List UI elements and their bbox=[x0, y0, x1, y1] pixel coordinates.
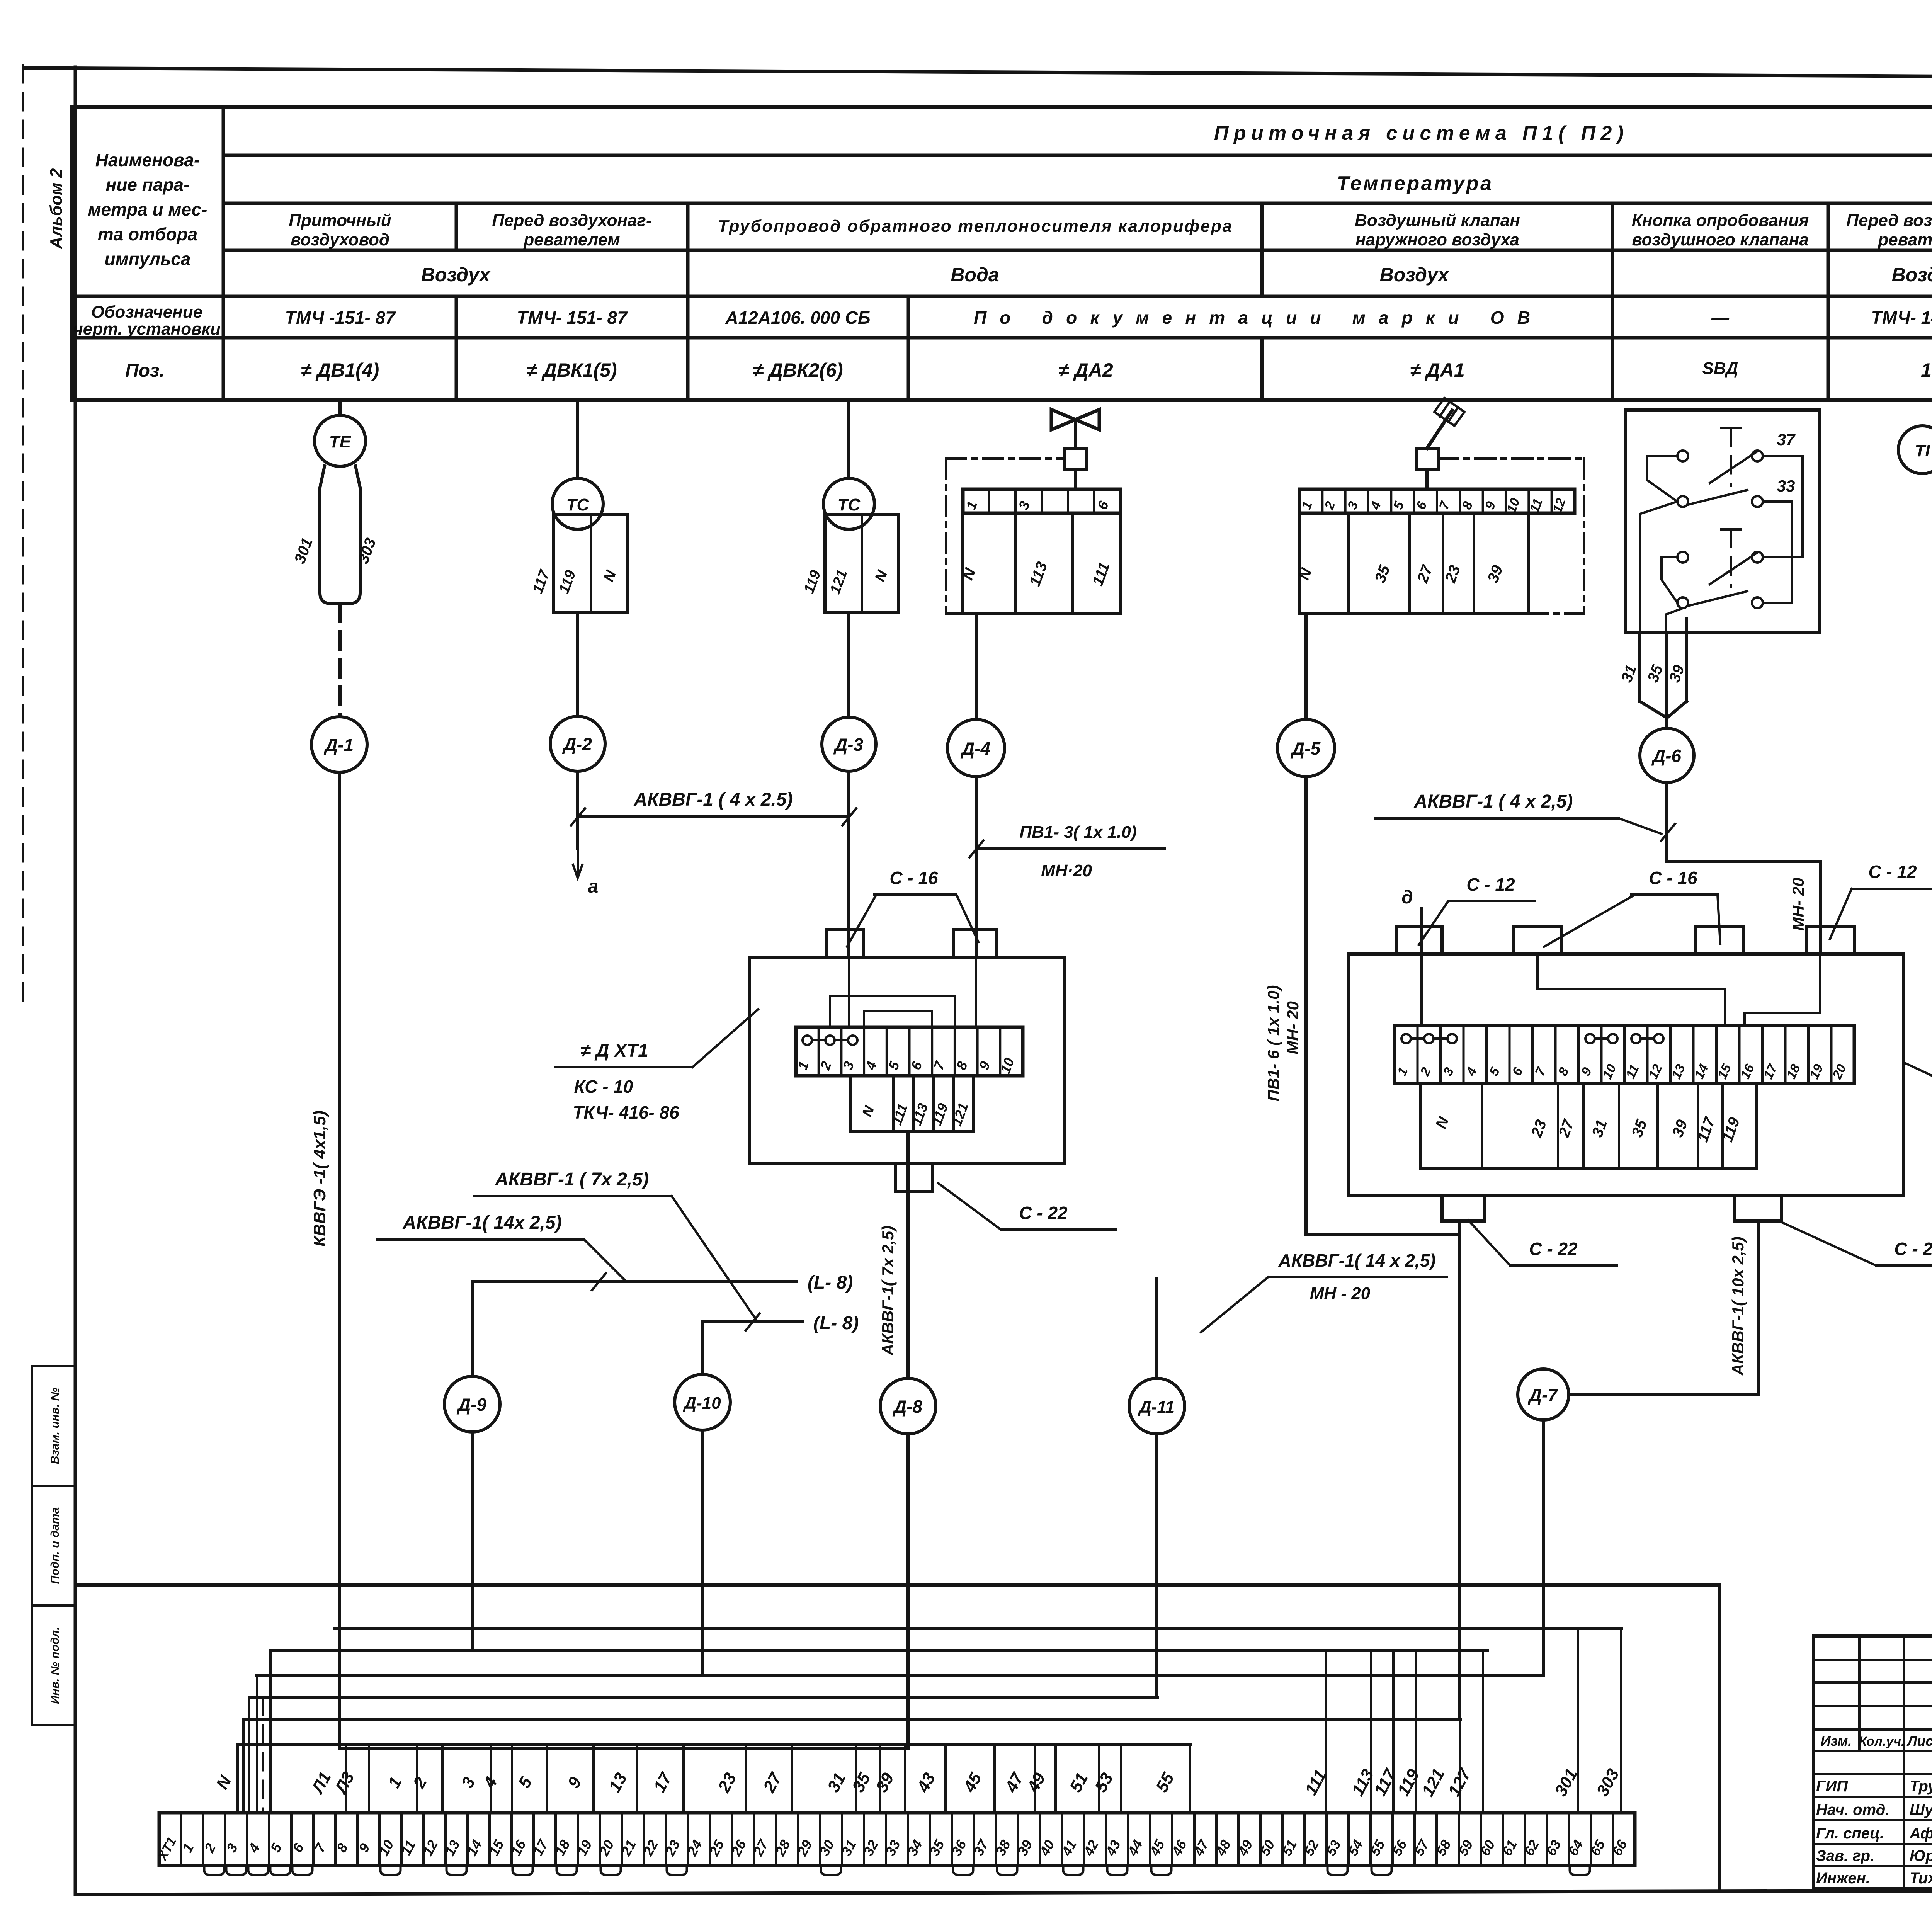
svg-text:Воздух: Воздух bbox=[1380, 264, 1450, 286]
wire D-10 down bbox=[701, 1430, 704, 1675]
wire XT2 right stub to D-7 bbox=[1757, 1221, 1760, 1395]
wire XT2 left stub down bbox=[1458, 1221, 1461, 1234]
svg-text:АКВВГ-1( 14х 2,5): АКВВГ-1( 14х 2,5) bbox=[402, 1213, 561, 1233]
svg-text:113: 113 bbox=[1348, 1766, 1378, 1799]
sheet border top line bbox=[24, 68, 1932, 80]
circle D-5 bbox=[1277, 719, 1335, 777]
svg-text:Обозначение: Обозначение bbox=[91, 303, 202, 321]
svg-text:ТС: ТС bbox=[838, 495, 861, 514]
XT1 jumper circles 1-2-3 bbox=[803, 1036, 812, 1045]
dashed screen drop bbox=[262, 1697, 264, 1813]
svg-text:С - 16: С - 16 bbox=[1649, 868, 1697, 888]
DA1 dash-dot enclosure bbox=[1438, 457, 1584, 460]
svg-text:С - 22: С - 22 bbox=[1894, 1239, 1932, 1259]
svg-text:53: 53 bbox=[1091, 1770, 1117, 1795]
svg-text:301: 301 bbox=[291, 536, 316, 566]
svg-text:≠ Д ХТ1: ≠ Д ХТ1 bbox=[580, 1041, 648, 1061]
XT1 lower terminal box bbox=[850, 1076, 974, 1132]
svg-text:39: 39 bbox=[1669, 1117, 1691, 1139]
XT2 lower terminal box bbox=[1421, 1083, 1756, 1168]
terminal box XT1 bbox=[749, 957, 1064, 1164]
svg-text:39: 39 bbox=[1666, 662, 1688, 685]
svg-text:35: 35 bbox=[1629, 1117, 1651, 1139]
TC1 terminal box bbox=[554, 515, 628, 613]
bus line E bbox=[249, 1696, 1157, 1699]
circle D-10 bbox=[675, 1374, 730, 1430]
svg-text:31: 31 bbox=[1589, 1117, 1611, 1139]
XT1 top stub right bbox=[954, 930, 997, 957]
svg-text:SВД: SВД bbox=[1702, 359, 1738, 378]
svg-text:С - 12: С - 12 bbox=[1868, 862, 1917, 882]
DA1 lower terminal box bbox=[1299, 513, 1528, 614]
XT1 inner wiring bbox=[848, 957, 850, 1027]
svg-text:Кол.уч.: Кол.уч. bbox=[1859, 1734, 1905, 1749]
svg-text:воздушного клапана: воздушного клапана bbox=[1632, 230, 1809, 249]
wire actuator to strip bbox=[1425, 470, 1429, 489]
svg-text:31: 31 bbox=[1618, 663, 1640, 685]
relay wiring left upper bbox=[1647, 456, 1677, 502]
svg-text:АКВВГ-1 ( 4 х 2.5): АКВВГ-1 ( 4 х 2.5) bbox=[633, 789, 793, 810]
valve DA2 bbox=[1051, 410, 1099, 430]
bus line G bbox=[238, 1743, 1190, 1746]
svg-text:Воздух: Воздух bbox=[421, 264, 491, 286]
wire DA1 to D-5 bbox=[1304, 614, 1308, 719]
svg-text:Воздушный клапан: Воздушный клапан bbox=[1355, 211, 1520, 230]
bus line H bbox=[339, 1747, 908, 1750]
wire TC2 to D-3 bbox=[847, 613, 850, 717]
svg-text:3: 3 bbox=[1345, 500, 1361, 512]
wire D-11 up bbox=[1155, 1279, 1158, 1378]
TC2 terminal box bbox=[825, 515, 899, 613]
svg-text:Тиханова: Тиханова bbox=[1910, 1870, 1932, 1887]
svg-text:19: 19 bbox=[1807, 1062, 1826, 1081]
svg-text:наружного воздуха: наружного воздуха bbox=[1355, 230, 1519, 249]
XT1 top stub left bbox=[826, 930, 864, 957]
circle D-9 bbox=[444, 1376, 500, 1432]
svg-text:Инжен.: Инжен. bbox=[1816, 1870, 1870, 1887]
valve actuator box bbox=[1064, 448, 1087, 470]
svg-text:27: 27 bbox=[760, 1769, 786, 1796]
contact 37 bbox=[1677, 451, 1688, 461]
svg-text:15: 15 bbox=[1715, 1061, 1735, 1081]
parameter table outer bbox=[72, 105, 1932, 109]
svg-text:1: 1 bbox=[1299, 500, 1315, 512]
svg-text:АКВВГ-1 ( 4 х 2,5): АКВВГ-1 ( 4 х 2,5) bbox=[1413, 791, 1573, 812]
svg-text:ревателем: ревателем bbox=[523, 230, 620, 249]
DA2 dash-dot enclosure bbox=[946, 457, 1064, 460]
contact 33 bbox=[1677, 496, 1688, 507]
svg-text:6: 6 bbox=[1413, 499, 1430, 512]
svg-text:3: 3 bbox=[1015, 499, 1033, 512]
svg-text:5: 5 bbox=[1391, 499, 1407, 512]
svg-text:N: N bbox=[600, 568, 619, 584]
svg-text:13: 13 bbox=[605, 1770, 631, 1795]
wire DA2 to D-4 bbox=[975, 614, 978, 719]
svg-text:КС - 10: КС - 10 bbox=[574, 1077, 633, 1097]
svg-text:Изм.: Изм. bbox=[1821, 1733, 1852, 1749]
svg-text:2: 2 bbox=[1322, 500, 1338, 512]
svg-text:111: 111 bbox=[889, 1102, 911, 1127]
svg-text:≠ ДА1: ≠ ДА1 bbox=[1410, 359, 1464, 381]
svg-text:6: 6 bbox=[1509, 1065, 1526, 1078]
cable clamp hooks under strip bbox=[204, 1866, 224, 1875]
svg-text:23: 23 bbox=[1442, 563, 1464, 585]
svg-text:(L- 8): (L- 8) bbox=[808, 1272, 853, 1293]
svg-text:≠ ДВК1(5): ≠ ДВК1(5) bbox=[527, 359, 617, 381]
XT2 top stubs bbox=[1396, 927, 1442, 954]
svg-text:N: N bbox=[859, 1104, 878, 1119]
svg-text:ПВ1- 3( 1х 1.0): ПВ1- 3( 1х 1.0) bbox=[1019, 823, 1136, 842]
circle D-6 bbox=[1640, 728, 1694, 782]
XT2 bottom stubs bbox=[1442, 1196, 1485, 1221]
svg-text:Поз.: Поз. bbox=[125, 361, 165, 381]
svg-text:117: 117 bbox=[530, 568, 553, 596]
XT2 terminal strip 20 cells bbox=[1395, 1026, 1854, 1083]
svg-text:Трушин: Трушин bbox=[1910, 1778, 1932, 1795]
svg-text:119: 119 bbox=[929, 1101, 951, 1128]
svg-text:N: N bbox=[872, 568, 891, 584]
svg-text:≠ ДВК2(6): ≠ ДВК2(6) bbox=[753, 359, 843, 381]
wire D-9 down bbox=[471, 1432, 474, 1651]
circle D-3 bbox=[822, 717, 876, 771]
bus line F bbox=[243, 1718, 1460, 1721]
cable mark PV1-3 bbox=[976, 847, 1165, 850]
svg-text:Нач. отд.: Нач. отд. bbox=[1816, 1801, 1889, 1818]
wire D-3 down to XT1 bbox=[847, 771, 850, 957]
svg-text:Л1: Л1 bbox=[308, 1769, 335, 1798]
svg-text:18: 18 bbox=[1784, 1062, 1803, 1081]
svg-text:Подп. и дата: Подп. и дата bbox=[49, 1507, 61, 1584]
svg-text:7: 7 bbox=[1532, 1065, 1549, 1078]
svg-text:АКВВГ-1( 7х 2,5): АКВВГ-1( 7х 2,5) bbox=[879, 1226, 897, 1356]
left bus drops to strip bbox=[236, 1744, 239, 1813]
svg-text:импульса: импульса bbox=[105, 249, 191, 269]
XT2 inner wiring bbox=[1420, 954, 1423, 1026]
bus line D bbox=[257, 1674, 1543, 1677]
svg-text:10: 10 bbox=[1600, 1062, 1619, 1081]
table vertical lines bbox=[222, 107, 225, 400]
svg-text:4: 4 bbox=[1463, 1065, 1480, 1078]
svg-text:23: 23 bbox=[714, 1770, 740, 1796]
svg-text:45: 45 bbox=[960, 1770, 986, 1796]
svg-text:Д-4: Д-4 bbox=[960, 738, 990, 759]
wire from table to TC2 bbox=[847, 400, 850, 478]
svg-text:АКВВГ-1 ( 7х 2,5): АКВВГ-1 ( 7х 2,5) bbox=[495, 1169, 649, 1190]
wire D-6 to XT2 bbox=[1665, 782, 1668, 862]
svg-text:1: 1 bbox=[1395, 1065, 1411, 1078]
svg-text:Альбом 2: Альбом 2 bbox=[47, 168, 66, 249]
svg-text:МН·20: МН·20 bbox=[1041, 861, 1092, 880]
wire D-4 down to XT1 bbox=[975, 777, 978, 957]
circle D-7 bbox=[1518, 1369, 1569, 1420]
DA2 terminal strip 6 cells bbox=[963, 489, 1121, 513]
svg-text:N: N bbox=[213, 1772, 235, 1793]
svg-text:14: 14 bbox=[1692, 1062, 1711, 1081]
svg-text:С - 22: С - 22 bbox=[1529, 1239, 1578, 1259]
svg-text:ТКЧ- 416- 86: ТКЧ- 416- 86 bbox=[573, 1102, 679, 1122]
svg-text:Наименова-: Наименова- bbox=[95, 150, 200, 170]
svg-text:121: 121 bbox=[827, 568, 850, 596]
continuation arrow a bbox=[573, 849, 582, 878]
DA1 terminal strip 12 cells bbox=[1299, 489, 1575, 513]
svg-text:6: 6 bbox=[1094, 498, 1112, 512]
svg-text:39: 39 bbox=[872, 1770, 898, 1796]
svg-text:КВВГЭ -1( 4х1,5): КВВГЭ -1( 4х1,5) bbox=[310, 1111, 329, 1247]
bus line A bbox=[75, 1583, 1719, 1587]
svg-text:13: 13 bbox=[1669, 1062, 1688, 1081]
wire actuator to strip bbox=[1074, 470, 1077, 489]
svg-text:Д-2: Д-2 bbox=[562, 734, 592, 754]
svg-text:8: 8 bbox=[1555, 1065, 1571, 1078]
svg-text:≠ ДА2: ≠ ДА2 bbox=[1058, 359, 1113, 381]
svg-text:Вода: Вода bbox=[951, 264, 999, 286]
wire D-9 up and L-8 bbox=[471, 1281, 474, 1376]
circle D-2 bbox=[550, 716, 605, 771]
svg-text:—: — bbox=[1711, 308, 1730, 328]
title block outer bbox=[1813, 1636, 1932, 1889]
svg-text:4: 4 bbox=[1367, 500, 1384, 512]
svg-text:303: 303 bbox=[1593, 1765, 1623, 1799]
frame bottom line bbox=[75, 1889, 1932, 1895]
svg-text:Л3: Л3 bbox=[331, 1769, 358, 1798]
svg-text:ТС: ТС bbox=[566, 495, 590, 514]
svg-text:17: 17 bbox=[1761, 1061, 1781, 1081]
svg-text:Д-7: Д-7 bbox=[1527, 1385, 1559, 1405]
XT1 terminal strip 10 cells bbox=[796, 1027, 1023, 1076]
svg-text:49: 49 bbox=[1024, 1770, 1049, 1796]
svg-text:Взам. инв. №: Взам. инв. № bbox=[49, 1388, 61, 1464]
svg-text:черт. установки: черт. установки bbox=[73, 320, 221, 338]
svg-text:Инв. № подл.: Инв. № подл. bbox=[49, 1627, 61, 1704]
svg-text:121: 121 bbox=[1418, 1765, 1448, 1799]
svg-text:Д-1: Д-1 bbox=[323, 735, 354, 755]
svg-text:5: 5 bbox=[1486, 1065, 1503, 1078]
svg-text:Гл. спец.: Гл. спец. bbox=[1816, 1825, 1884, 1842]
svg-text:119: 119 bbox=[1394, 1766, 1423, 1799]
svg-text:1: 1 bbox=[384, 1774, 406, 1791]
svg-text:ние пара-: ние пара- bbox=[106, 175, 190, 195]
svg-text:АКВВГ-1( 14 х 2,5): АКВВГ-1( 14 х 2,5) bbox=[1278, 1250, 1436, 1270]
circle D-8 bbox=[880, 1378, 936, 1434]
svg-text:37: 37 bbox=[1777, 430, 1796, 449]
sensor TC2 bbox=[823, 478, 874, 529]
svg-text:ПВ1- 6 ( 1х 1.0): ПВ1- 6 ( 1х 1.0) bbox=[1264, 985, 1282, 1102]
wire XT1 to D-8 bbox=[906, 1132, 910, 1378]
contact pair lower bbox=[1677, 552, 1688, 563]
sensor TC1 bbox=[552, 478, 603, 529]
wire from table to TE bbox=[338, 400, 342, 415]
long terminal strip XT1 bottom bbox=[159, 1813, 1635, 1866]
svg-text:МН- 20: МН- 20 bbox=[1789, 878, 1807, 931]
svg-text:N: N bbox=[1432, 1114, 1452, 1131]
svg-text:АКВВГ-1( 10х 2,5): АКВВГ-1( 10х 2,5) bbox=[1729, 1236, 1747, 1376]
svg-text:12: 12 bbox=[1646, 1062, 1665, 1081]
svg-text:Д-10: Д-10 bbox=[682, 1394, 721, 1413]
svg-text:МН- 20: МН- 20 bbox=[1284, 1001, 1302, 1054]
svg-text:Кнопка опробования: Кнопка опробования bbox=[1632, 211, 1809, 230]
svg-text:9: 9 bbox=[564, 1774, 585, 1791]
svg-text:16: 16 bbox=[1738, 1061, 1757, 1081]
circle D-4 bbox=[947, 719, 1005, 777]
svg-text:33: 33 bbox=[1777, 477, 1795, 495]
sheet border left edge mark bbox=[22, 65, 24, 1005]
svg-text:121: 121 bbox=[949, 1100, 971, 1128]
circle D-11 bbox=[1129, 1378, 1185, 1434]
stamp box Vzam inv bbox=[32, 1366, 75, 1486]
DA2 lower terminal box bbox=[963, 513, 1121, 614]
cable mark line AKVVG-1 4x2.5 bbox=[578, 815, 849, 818]
relay box SBD bbox=[1625, 410, 1820, 633]
svg-text:117: 117 bbox=[1371, 1765, 1400, 1799]
svg-text:Д-8: Д-8 bbox=[892, 1396, 923, 1417]
svg-text:113: 113 bbox=[1026, 560, 1051, 588]
wire TC1 to D-2 bbox=[576, 613, 579, 717]
svg-text:111: 111 bbox=[1089, 560, 1113, 588]
table horizontal lines bbox=[223, 154, 1932, 157]
DA1 sensor flag bbox=[1427, 410, 1452, 448]
svg-text:Д-3: Д-3 bbox=[833, 735, 864, 755]
svg-text:По документации марки ОВ: По документации марки ОВ bbox=[974, 308, 1530, 328]
svg-text:17: 17 bbox=[650, 1769, 676, 1795]
svg-text:39: 39 bbox=[1485, 563, 1507, 585]
svg-text:д: д bbox=[1401, 887, 1413, 908]
svg-text:Приточный: Приточный bbox=[289, 211, 391, 230]
frame left vertical bbox=[74, 67, 77, 1895]
XT1 bottom stub bbox=[895, 1164, 933, 1192]
sensor TE bbox=[315, 415, 366, 466]
svg-text:Трубопровод обратного теплонос: Трубопровод обратного теплоносителя кало… bbox=[718, 217, 1232, 236]
wire D-5 jog to XT2 stub bbox=[1306, 1233, 1460, 1236]
svg-text:55: 55 bbox=[1152, 1770, 1178, 1796]
svg-text:ТМЧ- 142- 87: ТМЧ- 142- 87 bbox=[1871, 308, 1932, 328]
valve stem bbox=[1074, 420, 1077, 448]
svg-text:43: 43 bbox=[913, 1770, 939, 1796]
bus line B bbox=[334, 1627, 1621, 1630]
XT2 jumpers bbox=[1401, 1034, 1411, 1043]
svg-text:11: 11 bbox=[1623, 1062, 1642, 1081]
svg-text:≠ ДВ1(4): ≠ ДВ1(4) bbox=[301, 359, 379, 381]
wire D-1 down to bus bbox=[338, 772, 341, 1749]
svg-text:7: 7 bbox=[1437, 499, 1453, 512]
svg-text:23: 23 bbox=[1528, 1117, 1550, 1140]
svg-text:Д-5: Д-5 bbox=[1290, 738, 1321, 759]
svg-text:воздуховод: воздуховод bbox=[291, 230, 389, 249]
svg-text:ТМЧ -151- 87: ТМЧ -151- 87 bbox=[285, 308, 396, 328]
svg-text:8: 8 bbox=[1459, 500, 1476, 512]
svg-text:ТЕ: ТЕ bbox=[329, 432, 352, 451]
svg-text:119: 119 bbox=[801, 568, 824, 595]
svg-text:1: 1 bbox=[963, 499, 980, 512]
svg-text:20: 20 bbox=[1830, 1062, 1849, 1082]
wire D-10 up and L-8 bbox=[701, 1321, 704, 1374]
svg-text:Шунский: Шунский bbox=[1910, 1801, 1932, 1818]
DA1 actuator box bbox=[1417, 448, 1438, 470]
svg-text:113: 113 bbox=[908, 1101, 931, 1128]
svg-text:Зав. гр.: Зав. гр. bbox=[1816, 1847, 1874, 1864]
svg-text:С - 22: С - 22 bbox=[1019, 1203, 1068, 1223]
circle D-1 bbox=[311, 717, 367, 772]
svg-text:Воздух: Воздух bbox=[1892, 264, 1932, 286]
svg-text:31: 31 bbox=[824, 1770, 849, 1795]
svg-text:35: 35 bbox=[849, 1770, 874, 1796]
svg-text:35: 35 bbox=[1645, 662, 1667, 685]
indicator TI 1 bbox=[1898, 426, 1932, 474]
wire D-5 down bbox=[1304, 777, 1308, 1234]
title block left grid bbox=[1813, 1659, 1932, 1661]
svg-text:47: 47 bbox=[1002, 1769, 1028, 1796]
relay wiring to exits bbox=[1662, 557, 1677, 603]
svg-text:1: 1 bbox=[1921, 359, 1932, 381]
terminal box XT2 bbox=[1349, 954, 1904, 1196]
svg-text:Температура: Температура bbox=[1337, 172, 1492, 195]
svg-text:5: 5 bbox=[515, 1774, 536, 1791]
svg-text:Афонина: Афонина bbox=[1909, 1825, 1932, 1842]
TE thermowell pocket bbox=[320, 466, 360, 604]
svg-text:ТМЧ- 151- 87: ТМЧ- 151- 87 bbox=[517, 308, 628, 328]
svg-text:МН - 20: МН - 20 bbox=[1310, 1284, 1371, 1303]
svg-text:Д-6: Д-6 bbox=[1651, 746, 1682, 766]
svg-text:303: 303 bbox=[355, 536, 379, 566]
dashed wire TE to D-1 bbox=[338, 604, 342, 716]
svg-text:119: 119 bbox=[556, 568, 579, 595]
svg-text:та отбора: та отбора bbox=[98, 224, 198, 244]
right group drops from bus C and B bbox=[1325, 1651, 1327, 1813]
wire D-8 down bbox=[906, 1434, 910, 1749]
relay exit wires 31 35 39 bbox=[1638, 633, 1641, 701]
svg-text:9: 9 bbox=[1578, 1065, 1595, 1078]
svg-text:С - 16: С - 16 bbox=[889, 868, 938, 888]
svg-text:(L- 8): (L- 8) bbox=[813, 1313, 859, 1333]
svg-text:ревателем: ревателем bbox=[1878, 230, 1932, 249]
wire drops into strip cells bbox=[345, 1744, 347, 1813]
svg-text:51: 51 bbox=[1066, 1770, 1092, 1795]
svg-text:а: а bbox=[588, 876, 599, 897]
svg-text:ГИП: ГИП bbox=[1816, 1778, 1848, 1795]
wire D-11 down bbox=[1155, 1434, 1158, 1697]
svg-text:метра и мес-: метра и мес- bbox=[88, 199, 207, 219]
svg-text:3: 3 bbox=[1440, 1065, 1457, 1078]
svg-text:Перед воздухонаг-: Перед воздухонаг- bbox=[1846, 211, 1932, 230]
svg-text:А12А106. 000 СБ: А12А106. 000 СБ bbox=[725, 308, 870, 328]
bus line C bbox=[270, 1649, 1488, 1652]
svg-text:ТI: ТI bbox=[1915, 441, 1930, 460]
wire D-2 down bbox=[576, 771, 579, 849]
svg-text:Д-11: Д-11 bbox=[1138, 1398, 1175, 1417]
stamp box Inv N podl bbox=[32, 1605, 75, 1725]
svg-text:127: 127 bbox=[1444, 1765, 1475, 1799]
svg-text:Перед воздухонаг-: Перед воздухонаг- bbox=[492, 211, 651, 230]
svg-text:Д-9: Д-9 bbox=[456, 1395, 487, 1415]
stamp box Podp i data bbox=[32, 1486, 75, 1605]
svg-text:35: 35 bbox=[1372, 563, 1394, 585]
wire D-7 down bbox=[1542, 1420, 1545, 1675]
svg-text:С - 12: С - 12 bbox=[1466, 874, 1515, 895]
svg-text:2: 2 bbox=[409, 1774, 430, 1791]
svg-text:Юрикова: Юрикова bbox=[1910, 1847, 1932, 1864]
svg-text:27: 27 bbox=[1414, 562, 1436, 585]
relay wiring right upper bbox=[1763, 456, 1803, 557]
svg-text:Приточная система П1( П2): Приточная система П1( П2) bbox=[1214, 122, 1624, 145]
wire from table to TC1 bbox=[576, 400, 579, 478]
svg-text:3: 3 bbox=[458, 1774, 479, 1791]
svg-text:Лист: Лист bbox=[1906, 1733, 1932, 1749]
svg-text:9: 9 bbox=[1482, 500, 1498, 512]
svg-text:2: 2 bbox=[1417, 1065, 1434, 1078]
